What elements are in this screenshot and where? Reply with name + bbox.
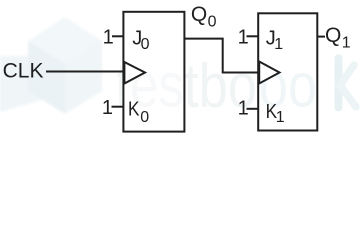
svg-text:0: 0 <box>208 13 217 30</box>
svg-text:1: 1 <box>342 34 351 51</box>
svg-text:CLK: CLK <box>3 59 44 82</box>
svg-text:1: 1 <box>276 109 285 126</box>
svg-text:Q: Q <box>325 24 341 47</box>
svg-text:0: 0 <box>140 109 149 126</box>
svg-text:1: 1 <box>238 97 249 119</box>
svg-text:0: 0 <box>141 36 150 53</box>
svg-text:1: 1 <box>274 36 283 53</box>
svg-text:1: 1 <box>238 27 249 49</box>
svg-text:1: 1 <box>102 97 113 119</box>
svg-text:1: 1 <box>103 27 114 49</box>
svg-text:K: K <box>128 98 140 120</box>
svg-text:Q: Q <box>191 3 207 26</box>
